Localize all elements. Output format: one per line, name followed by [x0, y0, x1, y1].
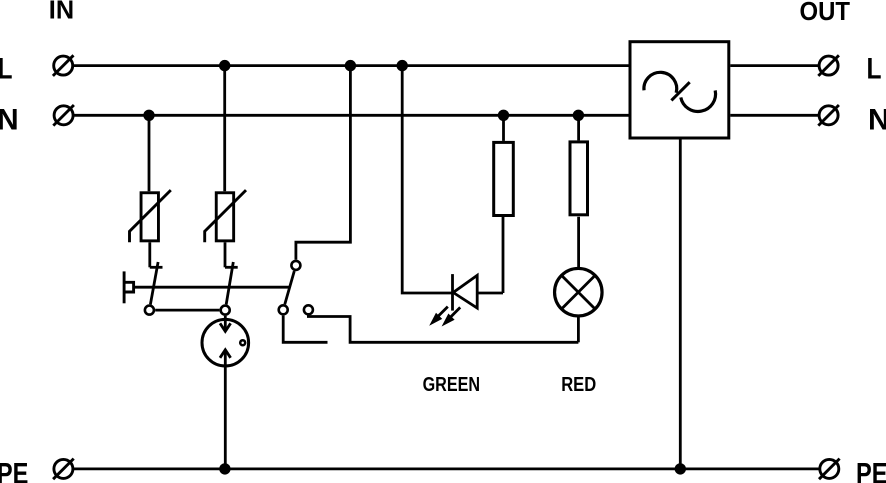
contact circle 1 — [145, 306, 154, 315]
wire between contact 1 and contact 2 — [155, 309, 219, 312]
wire resistor R2 to lamp — [577, 217, 580, 269]
node PE/filter junction — [675, 463, 686, 474]
svg-text:RED: RED — [561, 373, 596, 396]
switch blade 1 (thermal disconnect) — [150, 262, 158, 304]
wire filter box to PE — [679, 138, 682, 469]
terminal PE-out — [819, 459, 840, 480]
node L/varistor2 junction — [219, 60, 230, 71]
svg-text:N: N — [868, 103, 886, 136]
wire N bus input side — [74, 114, 629, 117]
wire L to varistor2 — [223, 66, 226, 192]
resistor R2 — [570, 142, 588, 215]
wire from NO contact to red lamp — [308, 315, 578, 342]
svg-text:IN: IN — [49, 0, 74, 24]
changeover switch blade — [285, 271, 295, 304]
wire L to changeover switch common — [296, 66, 351, 260]
contact circle 2 — [221, 306, 230, 315]
svg-text:N: N — [0, 103, 19, 136]
node N/resistor1 junction — [498, 110, 509, 121]
wire N bus output side — [730, 114, 818, 117]
node L/switch junction — [345, 60, 356, 71]
manual actuator fork — [124, 271, 134, 303]
node N/varistor1 junction — [143, 110, 154, 121]
spark gap F1 (gas discharge tube) — [202, 316, 249, 469]
svg-text:L: L — [867, 52, 882, 85]
svg-text:PE: PE — [856, 457, 886, 483]
wire PE bus — [74, 467, 820, 470]
wire varistor1 to contact, with tick — [150, 242, 163, 267]
wire L bus input side — [74, 64, 629, 67]
mechanical linkage bus — [134, 286, 290, 289]
terminal L-in — [53, 55, 74, 76]
filter sine symbol — [644, 72, 716, 111]
wire lamp to NO line — [577, 316, 580, 342]
switch blade 2 (thermal disconnect) — [226, 262, 233, 304]
wire from NC contact (open stub) — [283, 316, 327, 343]
LED emission arrow 2 — [442, 307, 461, 326]
wire LED to resistor R1 — [502, 217, 505, 293]
changeover switch common contact — [291, 261, 300, 270]
node L/LED junction — [397, 60, 408, 71]
svg-text:OUT: OUT — [800, 0, 851, 26]
wire N to varistor1 — [148, 115, 151, 191]
wire varistor2 to contact, with tick — [225, 242, 238, 267]
node PE/spark-gap junction — [219, 463, 230, 474]
changeover switch NC contact — [279, 305, 288, 314]
varistor RV2 — [205, 190, 246, 242]
node N/resistor2 junction — [573, 110, 584, 121]
terminal L-out — [818, 55, 839, 76]
varistor RV1 — [130, 190, 171, 242]
filter box U1 — [630, 42, 729, 138]
wire N to resistor R2 — [577, 115, 580, 140]
wire L to LED anode — [402, 66, 452, 293]
wire resistor R1 to N — [502, 115, 505, 141]
terminal N-in — [53, 105, 74, 126]
changeover switch NO contact — [304, 305, 313, 314]
LED emission arrow 1 — [429, 307, 448, 326]
svg-text:PE: PE — [0, 457, 28, 483]
lamp H1 (red) — [555, 268, 603, 316]
LED D1 (green) — [453, 274, 504, 311]
resistor R1 — [494, 142, 514, 215]
svg-text:GREEN: GREEN — [423, 373, 481, 396]
terminal N-out — [818, 105, 839, 126]
terminal PE-in — [53, 459, 74, 480]
svg-text:L: L — [0, 52, 13, 85]
wire L bus output side — [730, 64, 818, 67]
